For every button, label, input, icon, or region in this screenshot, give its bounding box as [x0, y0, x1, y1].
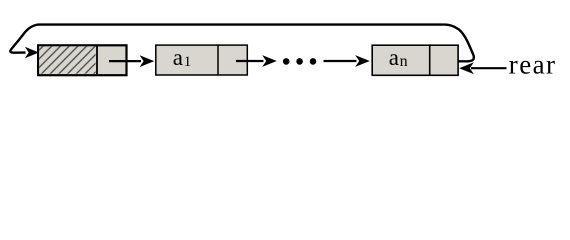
hatched data field of front node [39, 46, 95, 73]
dots: ellipsis between nodes [283, 58, 290, 65]
divider of node a1 [217, 44, 219, 75]
svg-text:1: 1 [184, 54, 192, 70]
arrowhead of circular link pointing into front node [25, 47, 39, 58]
svg-text:rear: rear [509, 50, 557, 80]
wire: arrow from node a1 to dots [236, 60, 264, 62]
svg-text:a: a [389, 45, 399, 70]
front node (head) box [38, 45, 126, 75]
wire: arrow from front node to node a1 [109, 60, 141, 62]
divider of node an [429, 44, 431, 75]
node an (rear) box [372, 45, 458, 75]
divider of front node [96, 45, 98, 75]
wire: rear pointer arrow [471, 67, 507, 69]
wire: arrow from dots to node an [324, 60, 357, 62]
svg-text:n: n [400, 53, 408, 70]
wire: circular link from rear node over the top back to front node [10, 25, 474, 62]
node a1 box [156, 45, 248, 75]
svg-text:a: a [173, 45, 183, 70]
